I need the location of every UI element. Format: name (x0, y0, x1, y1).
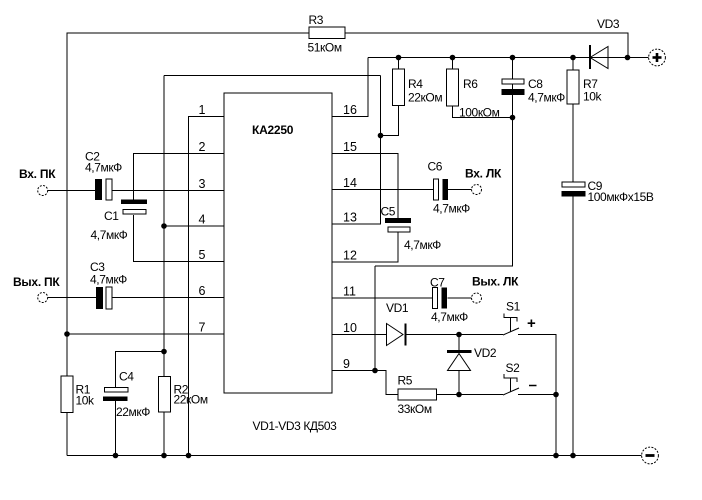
wire R4 top lead (398, 58, 400, 70)
wire top horizontal y=33 from left bus to right corner (67, 33, 628, 455)
node wireA-R6 (450, 55, 456, 61)
terminal Вых. ПК (13, 275, 60, 303)
wire C4 top bend to bus x=164 (116, 352, 165, 388)
svg-text:10: 10 (343, 321, 357, 335)
wire VD1 to S1 (406, 334, 503, 336)
wire C8 branch x=512.5 down and left to x=375 (375, 58, 513, 267)
wire C7 to terminal (448, 297, 472, 299)
svg-text:R4: R4 (408, 77, 423, 91)
node bottom R7C9 (570, 453, 576, 459)
svg-text:C1: C1 (104, 209, 119, 223)
node R4-pin13 riser (378, 133, 384, 139)
wire S1 right contact to vertical (518, 335, 556, 456)
wire pin16 riser x=368 (332, 58, 368, 117)
node wireA-R7 (570, 55, 576, 61)
resistor R5 (398, 374, 437, 417)
wire x=380.5 down to pin13 (332, 76, 381, 225)
wire R7 to C9 (572, 104, 574, 182)
IC U1 KA2250 box (224, 93, 332, 393)
svg-text:6: 6 (199, 284, 206, 298)
wire pin7 line (67, 333, 224, 335)
svg-text:+: + (527, 315, 536, 332)
minus polarity label (529, 385, 537, 387)
capacitor C6 (428, 160, 471, 216)
wire A y=57 from pin16 riser to plus terminal (368, 57, 649, 59)
svg-text:12: 12 (343, 249, 357, 263)
wire R1 bottom lead (66, 413, 68, 456)
diode VD2 (447, 346, 497, 371)
wire pin9 to R5 bend (332, 371, 398, 395)
svg-text:S2: S2 (506, 361, 521, 375)
node VD2 bottom (456, 392, 462, 398)
wire x=375 down to pin9 junction (374, 266, 376, 371)
svg-text:22мкФ: 22мкФ (116, 405, 150, 419)
wire R2 bottom lead (163, 412, 165, 456)
wire C9 to bottom (572, 197, 574, 456)
svg-text:VD2: VD2 (474, 346, 497, 360)
svg-text:4,7мкФ: 4,7мкФ (433, 202, 470, 216)
resistor R1 (61, 376, 95, 413)
svg-text:Вых. ПК: Вых. ПК (13, 275, 60, 289)
svg-text:C6: C6 (428, 160, 443, 174)
diode VD3 (590, 17, 620, 69)
svg-text:5: 5 (199, 248, 206, 262)
wire S2 right contact (518, 394, 556, 396)
capacitor C4 (103, 370, 150, 420)
svg-text:51кОм: 51кОм (308, 41, 342, 55)
wire R7 top lead (572, 58, 574, 71)
svg-text:S1: S1 (506, 300, 521, 314)
svg-text:VD1-VD3 КД503: VD1-VD3 КД503 (253, 419, 338, 433)
svg-text:10k: 10k (76, 394, 96, 408)
svg-text:Вых. ЛК: Вых. ЛК (472, 275, 519, 289)
resistor R2 (159, 377, 208, 413)
svg-text:4,7мкФ: 4,7мкФ (404, 238, 441, 252)
pin numbers right (343, 103, 357, 371)
svg-text:C7: C7 (430, 276, 445, 290)
capacitor C9 (562, 179, 654, 204)
svg-text:4,7мкФ: 4,7мкФ (431, 310, 468, 324)
svg-text:4: 4 (199, 213, 206, 227)
svg-text:16: 16 (343, 103, 357, 117)
svg-text:11: 11 (343, 285, 356, 299)
svg-text:22кОм: 22кОм (174, 393, 208, 407)
svg-text:Вх. ПК: Вх. ПК (19, 167, 56, 181)
svg-text:100кОм: 100кОм (459, 106, 500, 120)
svg-text:R6: R6 (463, 77, 478, 91)
node VD2 top (456, 332, 462, 338)
wire pin1 stub and bus x=188.5 (189, 117, 225, 456)
resistor R4 (393, 69, 443, 106)
svg-text:1: 1 (199, 103, 206, 117)
node wireA-VD3 (625, 55, 631, 61)
node S2 right (553, 392, 559, 398)
switch S1 (503, 314, 519, 336)
wire C4 bottom lead (115, 401, 117, 456)
node wireA-C8 (510, 55, 516, 61)
node bottom bus188 (186, 453, 192, 459)
svg-text:VD3: VD3 (597, 17, 620, 31)
resistor R6 (447, 69, 500, 120)
svg-text:C4: C4 (119, 370, 134, 384)
node C4-bus (161, 349, 167, 355)
terminal Вх. ПК (19, 167, 56, 196)
wire pin10 to VD1 (332, 334, 387, 336)
wire pin15 to C5 (332, 154, 398, 219)
terminal Вых. ЛК (472, 275, 520, 304)
wire C5 bottom to pin12 (332, 232, 398, 262)
wire bus x=164 from wire B to R2 (163, 76, 165, 377)
node C8-R6 (510, 115, 516, 121)
svg-text:Вх. ЛК: Вх. ЛК (465, 167, 502, 181)
resistor R3 (308, 13, 346, 55)
wire C3 to pin6 (111, 297, 224, 299)
svg-text:4,7мкФ: 4,7мкФ (91, 228, 128, 242)
wire pin11 to C7 (332, 297, 433, 299)
capacitor C2 (85, 150, 122, 201)
capacitor C8 (502, 77, 566, 105)
svg-text:9: 9 (343, 357, 350, 371)
pin numbers left (199, 103, 206, 335)
svg-text:VD1: VD1 (386, 301, 409, 315)
node bottom S-branch (553, 453, 559, 459)
terminal minus supply (642, 447, 659, 464)
wire input Вх.ПК to C2 (48, 190, 95, 192)
svg-text:100мкФх15В: 100мкФх15В (588, 190, 654, 204)
svg-text:R5: R5 (398, 374, 413, 388)
svg-text:33кОм: 33кОм (398, 402, 432, 416)
wire pin2 line with C1 riser (134, 154, 225, 201)
wire R6 top lead (452, 58, 454, 70)
wire R4 bottom bend to x=380.5 (381, 106, 399, 136)
wire C6 to terminal (448, 189, 472, 191)
svg-text:7: 7 (199, 321, 206, 335)
svg-text:22кОм: 22кОм (408, 91, 442, 105)
diode VD1 (386, 301, 409, 346)
svg-text:4,7мкФ: 4,7мкФ (85, 161, 122, 175)
wire pin14 to C6 (332, 189, 434, 191)
svg-text:4,7мкФ: 4,7мкФ (528, 91, 565, 105)
wire output Вых.ПК to C3 (48, 297, 96, 299)
wire C2 to pin3 (112, 190, 224, 192)
wire bottom horizontal y=455 (67, 455, 642, 457)
resistor R7 (567, 70, 603, 104)
node bottom R2 (161, 453, 167, 459)
node pin4-bus (161, 223, 167, 229)
svg-text:13: 13 (343, 211, 357, 225)
capacitor C5 (381, 205, 442, 253)
capacitor C1 (91, 200, 148, 243)
svg-text:КА2250: КА2250 (252, 123, 294, 137)
wire C1 bottom to pin5 line (134, 215, 225, 262)
node pin7-left bus (64, 331, 70, 337)
svg-text:10k: 10k (583, 90, 603, 104)
switch S2 (503, 374, 519, 395)
terminal Вх. ЛК (465, 167, 502, 195)
svg-text:15: 15 (343, 140, 357, 154)
svg-text:C8: C8 (528, 77, 543, 91)
wire VD2 top lead (458, 335, 460, 351)
wire B y=75.5 from left bus to x=380.5 (164, 75, 381, 77)
svg-text:2: 2 (199, 140, 206, 154)
wire R6 bottom bend to C8 line (453, 106, 513, 118)
svg-text:4,7мкФ: 4,7мкФ (90, 273, 127, 287)
wire R1 top lead (66, 334, 68, 376)
node wireA-R4 (396, 55, 402, 61)
capacitor C3 (90, 260, 127, 309)
terminal plus supply (649, 49, 666, 66)
node pin9 (372, 368, 378, 374)
svg-text:C5: C5 (381, 205, 396, 219)
svg-text:14: 14 (343, 176, 357, 190)
wire VD2 bottom lead (458, 371, 460, 395)
wire R5 right to S2 (437, 394, 504, 396)
svg-text:3: 3 (199, 177, 206, 191)
svg-text:R3: R3 (309, 13, 324, 27)
wire pin4 stub (164, 225, 224, 227)
node bottom C4 (113, 453, 119, 459)
capacitor C7 (430, 276, 468, 325)
